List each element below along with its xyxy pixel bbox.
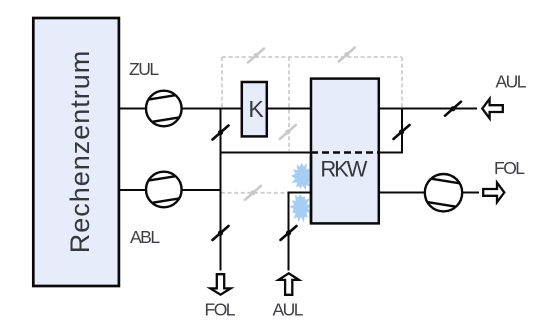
gray damper 1 on top dashed line <box>248 49 264 63</box>
wire ABL pipe <box>120 189 221 191</box>
control dashed box top <box>222 56 402 58</box>
spray nozzle bottom <box>289 194 311 223</box>
spray nozzle top <box>291 163 312 191</box>
arrow AUL inlet bottom (points up) <box>279 273 299 295</box>
RKW left edge repaint <box>310 155 313 223</box>
wire main vertical duct <box>220 108 222 271</box>
arrow FOL outlet right (points right) <box>483 183 504 203</box>
damper on RKW bypass vertical <box>394 125 410 139</box>
damper on AUL bottom duct <box>281 226 297 240</box>
divider dashed inside RKW <box>311 151 379 153</box>
control dashed right vertical <box>401 57 403 107</box>
svg-text:RKW: RKW <box>320 157 367 182</box>
svg-text:ZUL: ZUL <box>129 59 159 79</box>
svg-text:K: K <box>248 96 264 122</box>
gray damper 4 on dashed horizontal <box>245 186 261 200</box>
wire ZUL pipe <box>120 108 311 110</box>
fan ABL extract fan <box>146 172 182 208</box>
box RKW heat recovery <box>311 79 379 224</box>
damper on AUL top pipe <box>445 102 461 116</box>
fan ZUL supply fan <box>146 91 182 127</box>
gray damper 2 on top dashed line <box>339 48 355 62</box>
svg-text:ABL: ABL <box>130 227 160 247</box>
box K heater <box>242 82 267 136</box>
box Rechenzentrum <box>33 18 119 286</box>
wire top right pipe to AUL <box>379 108 478 110</box>
arrow AUL inlet top right (points left) <box>482 99 503 119</box>
svg-text:AUL: AUL <box>496 72 527 92</box>
wire AUL bottom duct <box>289 193 312 271</box>
wire FOL pipe <box>379 192 480 194</box>
control dashed left vertical <box>221 57 223 107</box>
wire mid horizontal to RKW <box>221 152 312 154</box>
damper on vertical duct lower <box>213 226 229 240</box>
wire RKW right bypass <box>379 108 403 153</box>
control dashed middle vertical <box>288 57 290 151</box>
svg-text:AUL: AUL <box>273 300 304 320</box>
svg-text:FOL: FOL <box>205 300 236 320</box>
damper on vertical duct upper <box>213 126 229 140</box>
gray damper 3 on middle dashed vertical <box>280 125 296 139</box>
control dashed horizontal <box>221 192 288 194</box>
fan FOL exhaust fan <box>425 174 462 211</box>
arrow FOL outlet bottom (points down) <box>210 274 230 295</box>
svg-text:FOL: FOL <box>494 158 525 178</box>
svg-text:Rechenzentrum: Rechenzentrum <box>65 50 95 254</box>
